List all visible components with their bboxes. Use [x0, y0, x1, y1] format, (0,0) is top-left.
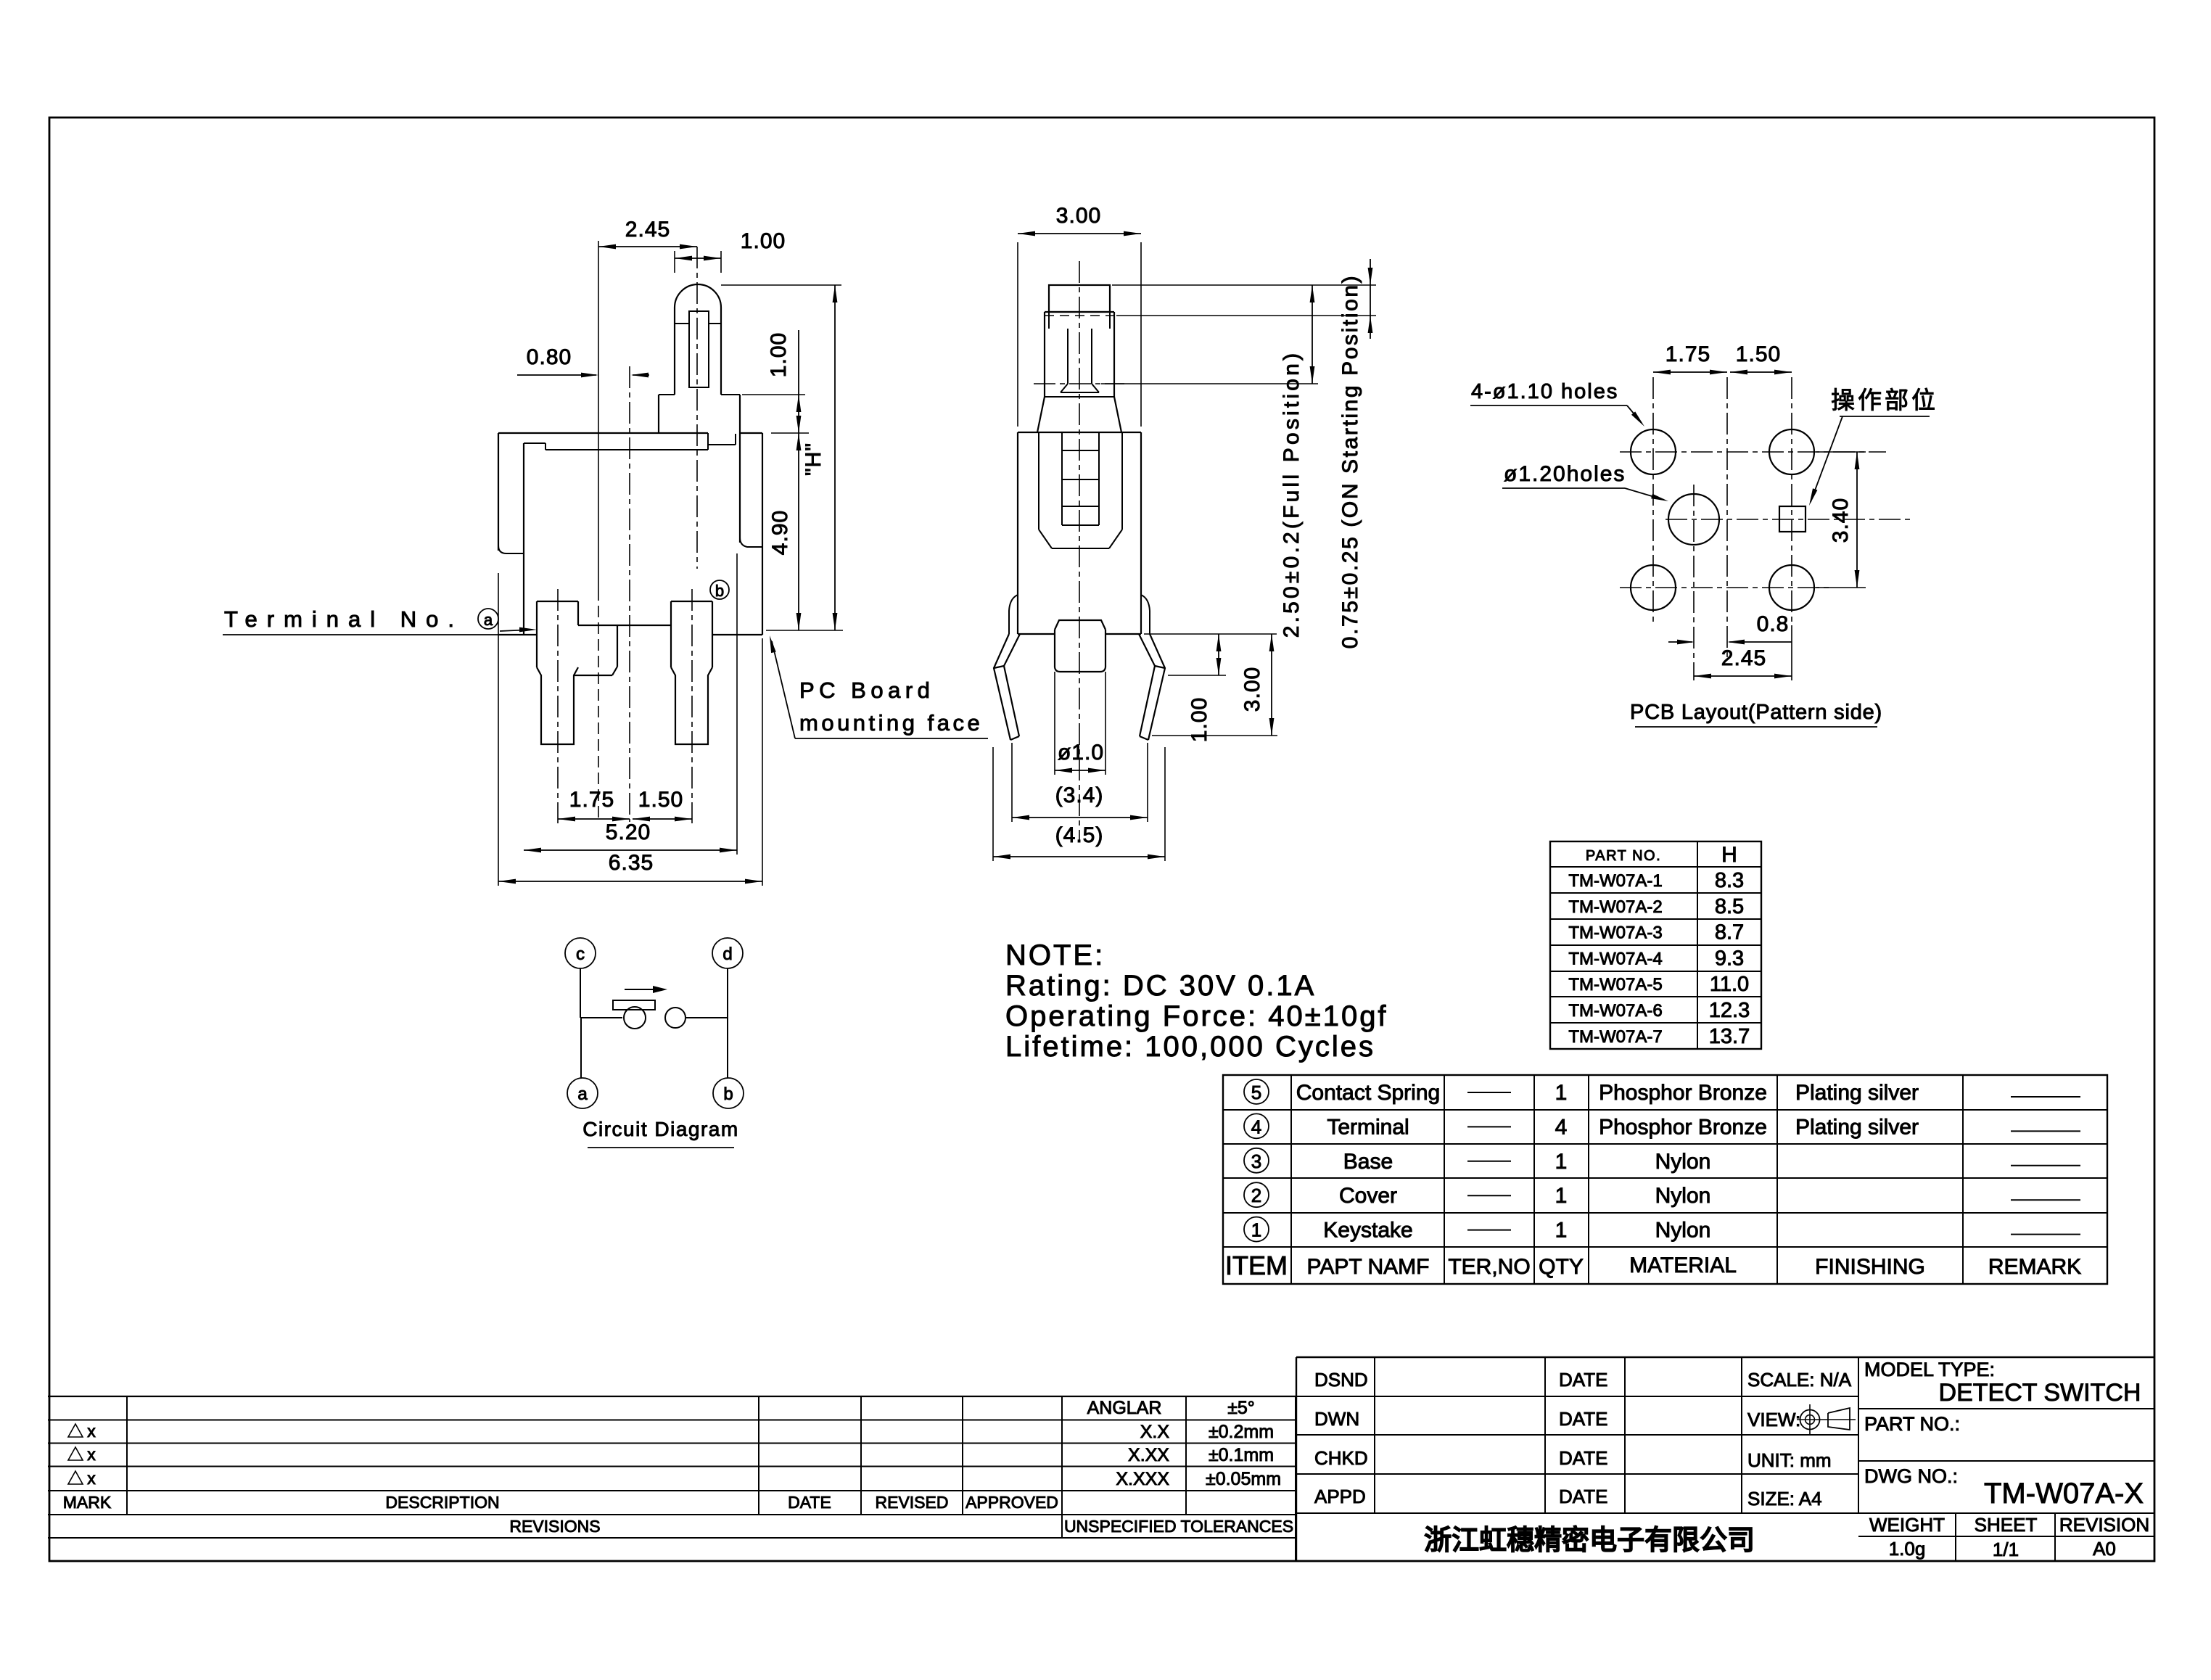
dimension dia 1.0 (shaft) [1054, 672, 1055, 775]
svg-text:4: 4 [1251, 1116, 1261, 1137]
front view: terminal a centerline [557, 589, 559, 823]
svg-text:REVISION: REVISION [2059, 1514, 2149, 1536]
title block frame [1296, 1356, 2154, 1358]
svg-text:TM-W07A-1: TM-W07A-1 [1568, 871, 1662, 891]
svg-text:ø1.20holes: ø1.20holes [1504, 462, 1626, 486]
svg-text:8.7: 8.7 [1715, 921, 1744, 944]
svg-text:APPD: APPD [1314, 1486, 1366, 1507]
dimension (4.5) [992, 747, 994, 861]
dimension 6.35 [498, 881, 762, 882]
svg-text:±0.2mm: ±0.2mm [1209, 1422, 1274, 1442]
front view: reference extension line 0.80/2.45 [598, 241, 599, 589]
svg-text:TM-W07A-3: TM-W07A-3 [1568, 923, 1662, 943]
svg-text:Plating silver: Plating silver [1795, 1081, 1919, 1105]
side view: left leg [994, 634, 1010, 740]
svg-text:ø1.0: ø1.0 [1058, 741, 1104, 765]
svg-text:5: 5 [1251, 1082, 1261, 1103]
svg-text:1: 1 [1555, 1219, 1568, 1243]
dimension 2.45 (front) [598, 246, 697, 247]
svg-text:1/1: 1/1 [1993, 1539, 2019, 1560]
pcb layout: centerline bottom row [1620, 587, 1829, 588]
svg-text:b: b [723, 1084, 733, 1104]
pcb layout: hole top-right (1.10) [1769, 429, 1814, 474]
extension lines 6.35 [498, 573, 499, 886]
dimension 0.8 (pcb, outside arrows) [1668, 641, 1692, 643]
svg-text:DATE: DATE [1559, 1486, 1607, 1507]
svg-text:x: x [87, 1469, 96, 1488]
revisions table: triangle-x marks [68, 1424, 83, 1437]
svg-text:8.5: 8.5 [1715, 895, 1744, 918]
pcb layout: hole bottom-right (1.10) [1769, 565, 1814, 610]
side view: spring slot ladder [1061, 433, 1063, 525]
svg-text:1: 1 [1555, 1184, 1568, 1208]
front view: terminal b lead [671, 601, 712, 602]
extension lines for 1.00 top [674, 251, 675, 273]
extension line body top right [771, 432, 809, 434]
svg-text:H: H [1721, 843, 1737, 867]
svg-text:DWN: DWN [1314, 1408, 1359, 1430]
svg-text:TM-W07A-2: TM-W07A-2 [1568, 897, 1662, 917]
svg-text:Rating: DC 30V 0.1A: Rating: DC 30V 0.1A [1005, 970, 1316, 1002]
svg-text:DWG NO.:: DWG NO.: [1864, 1465, 1958, 1487]
svg-text:DATE: DATE [1559, 1408, 1607, 1430]
side view: main body flange [1018, 432, 1141, 433]
svg-text:Terminal No.: Terminal No. [224, 606, 464, 632]
side view: right leg [1148, 634, 1165, 740]
svg-text:Circuit Diagram: Circuit Diagram [582, 1118, 738, 1140]
svg-text:Nylon: Nylon [1655, 1219, 1711, 1243]
svg-text:PART NO.:: PART NO.: [1864, 1413, 1960, 1435]
svg-text:±5°: ±5° [1227, 1398, 1255, 1418]
pcb layout: centerline middle row [1666, 519, 1910, 520]
svg-text:3.00: 3.00 [1240, 667, 1264, 712]
svg-text:b: b [715, 582, 724, 600]
circuit: moving contact bar [613, 1000, 655, 1010]
pcb layout: hole top-left (1.10) [1631, 429, 1676, 474]
svg-text:TM-W07A-X: TM-W07A-X [1984, 1478, 2144, 1510]
svg-text:DSND: DSND [1314, 1369, 1368, 1391]
svg-text:(3.4): (3.4) [1055, 783, 1104, 807]
svg-text:9.3: 9.3 [1715, 947, 1744, 970]
circuit: wire junction to b [727, 1018, 728, 1078]
svg-text:4-ø1.10 holes: 4-ø1.10 holes [1471, 380, 1618, 403]
front view: cover right inner wall [739, 433, 741, 543]
side view: key collar [1045, 311, 1114, 313]
svg-text:SHEET: SHEET [1975, 1514, 2038, 1536]
circuit: terminal d [712, 938, 743, 968]
side view: cone flare [1037, 397, 1045, 432]
svg-text:5.20: 5.20 [606, 820, 651, 844]
pcb layout: hole middle (1.20) [1668, 494, 1719, 545]
svg-text:NOTE:: NOTE: [1005, 939, 1105, 971]
svg-text:PAPT NAMF: PAPT NAMF [1307, 1255, 1430, 1279]
svg-text:x: x [87, 1422, 96, 1441]
svg-text:Nylon: Nylon [1655, 1184, 1711, 1208]
dimension 3.00 (side top width) [1017, 242, 1018, 427]
circuit: actuation arrow [625, 989, 656, 990]
dimension 5.20 [524, 849, 737, 851]
svg-text:UNSPECIFIED TOLERANCES: UNSPECIFIED TOLERANCES [1064, 1517, 1293, 1536]
svg-text:d: d [722, 944, 732, 964]
side view: key stem [1067, 329, 1069, 384]
side view: center post (shaft) [1055, 620, 1105, 630]
svg-text:13.7: 13.7 [1709, 1025, 1750, 1048]
svg-text:mounting face: mounting face [799, 710, 983, 736]
dimension 1.00 (leg offset) [1168, 675, 1226, 676]
svg-text:REMARK: REMARK [1988, 1255, 2081, 1279]
svg-text:6.35: 6.35 [609, 851, 654, 875]
svg-text:UNIT: mm: UNIT: mm [1747, 1449, 1832, 1471]
svg-text:0.75±0.25 (ON Starting Positio: 0.75±0.25 (ON Starting Position) [1338, 274, 1362, 649]
svg-text:2.45: 2.45 [1721, 646, 1766, 670]
svg-text:1: 1 [1555, 1150, 1568, 1174]
dimension 0.75+-0.25 (ON Starting Position, outside arrows) [1370, 259, 1371, 339]
svg-text:MODEL TYPE:: MODEL TYPE: [1864, 1359, 1995, 1380]
front view: bottom mounting face [498, 634, 537, 635]
svg-text:APPROVED: APPROVED [965, 1493, 1058, 1512]
bom row 3: Base [1244, 1148, 1269, 1173]
pcb layout: centerline left column [1652, 377, 1654, 622]
dimension 3.00 (leg height) [1152, 735, 1277, 736]
svg-text:DATE: DATE [1559, 1447, 1607, 1469]
svg-text:操作部位: 操作部位 [1831, 387, 1938, 413]
svg-text:DESCRIPTION: DESCRIPTION [385, 1493, 499, 1512]
svg-text:1: 1 [1251, 1219, 1261, 1241]
side view: hidden line (ON start position) [1045, 315, 1114, 316]
svg-text:0.80: 0.80 [527, 345, 572, 369]
circuit: terminal a [567, 1078, 598, 1108]
side view: centerline [1079, 261, 1080, 841]
circuit: wire a to junction [580, 1018, 582, 1078]
side view: key cap [1049, 285, 1110, 312]
svg-text:3: 3 [1251, 1150, 1261, 1172]
svg-text:±0.1mm: ±0.1mm [1209, 1445, 1274, 1465]
svg-text:Terminal: Terminal [1327, 1115, 1409, 1139]
bom row 4: Terminal [1244, 1113, 1269, 1138]
svg-text:X.X: X.X [1140, 1422, 1170, 1442]
svg-text:REVISIONS: REVISIONS [509, 1517, 600, 1536]
dimension H overall height [834, 285, 836, 630]
extension line knob top to H dim [721, 284, 841, 286]
dimension 1.75 / 1.50 (pcb) [1653, 371, 1727, 373]
svg-text:1.50: 1.50 [638, 788, 683, 812]
svg-text:PCB Layout(Pattern side): PCB Layout(Pattern side) [1630, 701, 1882, 724]
svg-text:ANGLAR: ANGLAR [1087, 1398, 1162, 1418]
svg-text:TER,NO: TER,NO [1448, 1255, 1530, 1279]
svg-text:DATE: DATE [788, 1493, 831, 1512]
title block: weight/sheet/revision row [1858, 1536, 2154, 1537]
dimension 1.00 (knob width) [675, 258, 721, 259]
svg-text:QTY: QTY [1539, 1255, 1584, 1279]
front view: cover left inner wall [523, 443, 524, 635]
bom table: frame [1223, 1075, 2107, 1284]
svg-text:11.0: 11.0 [1710, 973, 1749, 996]
svg-text:2.50±0.2(Full Position): 2.50±0.2(Full Position) [1280, 350, 1304, 638]
svg-text:WEIGHT: WEIGHT [1869, 1514, 1945, 1536]
bom row 2: Cover [1244, 1182, 1269, 1207]
svg-text:2: 2 [1251, 1185, 1261, 1206]
svg-text:TM-W07A-7: TM-W07A-7 [1568, 1027, 1662, 1047]
svg-text:a: a [577, 1084, 588, 1104]
svg-text:TM-W07A-4: TM-W07A-4 [1568, 949, 1662, 968]
svg-text:Operating Force: 40±10gf: Operating Force: 40±10gf [1005, 1000, 1388, 1032]
circuit: wire contact to right [686, 1017, 728, 1018]
dimension 2.50+-0.2 (Full Position) [1312, 285, 1313, 384]
front view: knob centerline [696, 247, 698, 569]
pcb layout: hole bottom-left (1.10) [1631, 565, 1676, 610]
dimension 1.75 / 1.50 (front) [558, 818, 630, 820]
revisions table frame [48, 1396, 1296, 1397]
svg-text:Cover: Cover [1339, 1184, 1397, 1208]
svg-text:Phosphor Bronze: Phosphor Bronze [1599, 1081, 1767, 1105]
dimension 1.00 (collar height) and 4.90 (body height) [798, 330, 799, 630]
svg-text:X.XXX: X.XXX [1116, 1469, 1169, 1489]
extension lines: cap top / start / full position [1112, 284, 1376, 286]
svg-text:4.90: 4.90 [768, 510, 792, 555]
dimension 3.40 (pcb) [1816, 451, 1866, 453]
side view: mounting face line [1018, 633, 1055, 635]
svg-text:TM-W07A-5: TM-W07A-5 [1568, 975, 1662, 995]
svg-text:0.8: 0.8 [1757, 612, 1790, 636]
svg-text:1.00: 1.00 [741, 229, 786, 253]
front view: switch body outline [498, 432, 708, 434]
front view: body centerline [629, 366, 630, 822]
circuit: wire d to junction [727, 968, 728, 1018]
svg-text:A0: A0 [2093, 1538, 2116, 1560]
front view: terminal b centerline [691, 589, 693, 823]
svg-text:Nylon: Nylon [1655, 1150, 1711, 1174]
svg-text:SCALE: N/A: SCALE: N/A [1747, 1369, 1852, 1391]
svg-text:ITEM: ITEM [1225, 1251, 1288, 1280]
title block: third angle projection symbol [1800, 1410, 1820, 1430]
svg-text:DETECT SWITCH: DETECT SWITCH [1939, 1379, 2141, 1407]
svg-text:SIZE: A4: SIZE: A4 [1747, 1488, 1822, 1510]
svg-text:1.50: 1.50 [1736, 342, 1781, 366]
circuit: contact pole left [624, 1007, 646, 1029]
extension line bottom face right [766, 630, 843, 631]
dimension 2.45 (pcb) [1791, 625, 1792, 680]
svg-text:c: c [576, 944, 585, 964]
svg-text:CHKD: CHKD [1314, 1447, 1368, 1469]
svg-text:"H": "H" [802, 442, 825, 476]
svg-text:1.75: 1.75 [1666, 342, 1710, 366]
svg-text:FINISHING: FINISHING [1815, 1255, 1925, 1279]
svg-text:12.3: 12.3 [1709, 999, 1750, 1022]
svg-text:Lifetime: 100,000 Cycles: Lifetime: 100,000 Cycles [1005, 1031, 1375, 1063]
label: terminal b circle [710, 580, 729, 599]
svg-text:浙江虹穗精密电子有限公司: 浙江虹穗精密电子有限公司 [1424, 1525, 1755, 1556]
svg-text:Base: Base [1343, 1150, 1393, 1174]
svg-text:1.75: 1.75 [569, 788, 614, 812]
svg-text:TM-W07A-6: TM-W07A-6 [1568, 1001, 1662, 1021]
circuit: contact pole right [665, 1008, 685, 1028]
svg-text:1: 1 [1555, 1081, 1568, 1105]
extension line mounting face right [1144, 633, 1277, 635]
dimension (3.4) [1011, 743, 1013, 822]
circuit: wire left to contact [580, 1017, 622, 1018]
svg-text:8.3: 8.3 [1715, 869, 1744, 892]
svg-text:PC Board: PC Board [799, 678, 934, 703]
svg-text:DATE: DATE [1559, 1369, 1607, 1391]
bom row 1: Keystake [1244, 1217, 1269, 1242]
circuit: terminal b [713, 1078, 744, 1108]
extension line collar top right [742, 394, 805, 395]
bom row 5: Contact Spring [1244, 1079, 1269, 1104]
pcb layout: centerline center column [1726, 377, 1728, 657]
extension lines 5.20 [736, 553, 738, 855]
dimension 0.80 (front, outside arrows) [517, 374, 596, 376]
front view: plunger collar [658, 395, 659, 433]
part number table: frame [1550, 841, 1761, 1049]
svg-text:4: 4 [1555, 1115, 1568, 1139]
circuit: terminal c [565, 938, 596, 968]
front view: cover step line [524, 442, 545, 444]
svg-text:a: a [484, 611, 493, 629]
svg-text:VIEW:: VIEW: [1747, 1409, 1800, 1430]
svg-text:2.45: 2.45 [625, 218, 670, 242]
svg-text:X.XX: X.XX [1128, 1445, 1169, 1465]
svg-text:1.0g: 1.0g [1889, 1538, 1926, 1560]
svg-text:MATERIAL: MATERIAL [1629, 1253, 1737, 1277]
svg-text:(4.5): (4.5) [1055, 823, 1104, 847]
svg-text:3.00: 3.00 [1056, 204, 1101, 228]
svg-text:x: x [87, 1445, 96, 1464]
front view: plunger knob [675, 284, 721, 395]
svg-text:Keystake: Keystake [1323, 1219, 1412, 1243]
pcb layout: centerline top row [1620, 451, 1886, 453]
front view: plunger slot [689, 311, 709, 387]
circuit: wire c to junction [580, 968, 581, 1018]
side view: leg upper curls [1009, 595, 1018, 634]
svg-text:MARK: MARK [63, 1493, 112, 1512]
pcb layout: centerline middle column [1693, 485, 1695, 680]
side view: upper body [1044, 329, 1045, 397]
svg-text:Phosphor Bronze: Phosphor Bronze [1599, 1115, 1767, 1139]
svg-text:1.00: 1.00 [767, 332, 791, 377]
front view: terminal web plate [578, 625, 671, 626]
side view: full position dash-dot line [1034, 383, 1124, 384]
svg-text:Plating silver: Plating silver [1795, 1115, 1919, 1139]
side view: body inner walls [1038, 433, 1039, 530]
svg-text:REVISED: REVISED [876, 1493, 949, 1512]
svg-text:±0.05mm: ±0.05mm [1206, 1469, 1281, 1489]
pcb layout: centerline right column [1791, 377, 1792, 622]
pcb layout: operating part square [1779, 506, 1806, 532]
front view: terminal a lead [537, 601, 578, 602]
svg-text:3.40: 3.40 [1829, 498, 1853, 543]
svg-text:Contact Spring: Contact Spring [1296, 1081, 1440, 1105]
svg-text:PART NO.: PART NO. [1586, 848, 1661, 864]
